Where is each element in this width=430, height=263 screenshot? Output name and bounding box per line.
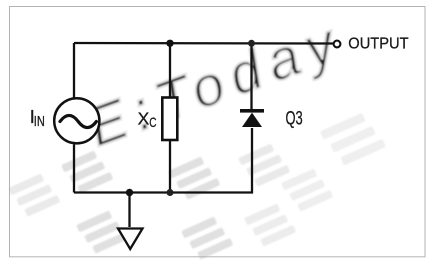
svg-text:Q3: Q3 (286, 108, 303, 129)
svg-text:IN: IN (34, 113, 45, 130)
svg-text:X: X (138, 108, 150, 128)
svg-text:OUTPUT: OUTPUT (348, 36, 409, 53)
svg-text:C: C (149, 115, 156, 131)
